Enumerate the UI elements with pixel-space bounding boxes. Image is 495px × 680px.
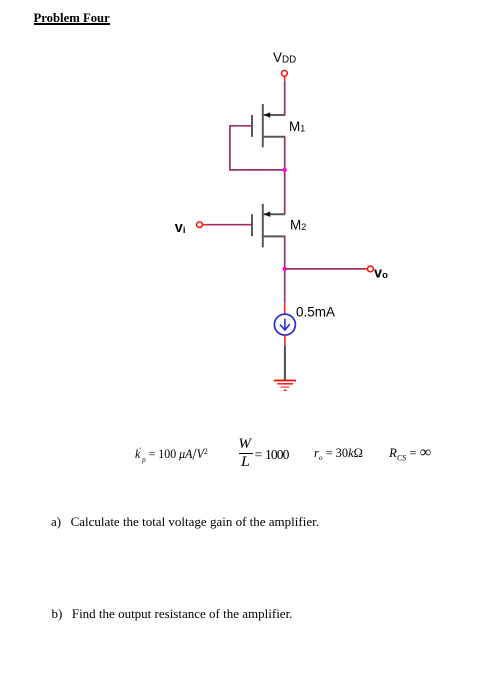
wire VDD to M1 drain bbox=[284, 81, 286, 115]
node VDD label bbox=[273, 50, 296, 66]
parameter W/L equation bbox=[239, 436, 295, 470]
wire M2 source down to output node bbox=[284, 236, 286, 302]
title "Problem Four" bbox=[34, 11, 110, 25]
wire vi stub bbox=[203, 224, 207, 226]
transistor M1 bbox=[252, 104, 285, 147]
svg-text:M1: M1 bbox=[289, 119, 305, 134]
wire vi to M2 gate bbox=[207, 224, 252, 226]
question b bbox=[52, 606, 293, 622]
terminal vo bbox=[368, 266, 374, 272]
wire M1 gate feedback loop bbox=[230, 126, 285, 170]
terminal vi bbox=[197, 222, 203, 228]
svg-text:0.5mA: 0.5mA bbox=[296, 304, 335, 319]
arrow M2 source bbox=[264, 211, 270, 217]
wire node to current source bbox=[284, 303, 286, 315]
parameter ro equation bbox=[314, 446, 363, 462]
wire current source to ground bbox=[284, 335, 286, 346]
label M1 bbox=[289, 119, 305, 134]
wire output node to vo bbox=[285, 268, 365, 270]
wire VDD stub bbox=[284, 77, 286, 81]
arrow M1 source bbox=[264, 112, 270, 118]
value label 0.5mA bbox=[296, 304, 335, 319]
junction output node bbox=[283, 267, 287, 271]
terminal VDD bbox=[282, 70, 288, 76]
label vi bbox=[175, 220, 186, 236]
svg-text:vo: vo bbox=[374, 265, 388, 281]
svg-text:VDD: VDD bbox=[273, 50, 296, 66]
arrow inside current source bbox=[280, 319, 290, 330]
ground bbox=[274, 381, 296, 391]
junction node between M1 and M2 bbox=[283, 168, 287, 172]
question a bbox=[51, 514, 319, 530]
transistor M2 bbox=[252, 204, 285, 248]
svg-text:M2: M2 bbox=[290, 218, 306, 233]
parameter kp equation bbox=[135, 446, 208, 464]
parameter RCS equation bbox=[389, 446, 431, 462]
label M2 bbox=[290, 218, 306, 233]
wire ground lead bbox=[284, 346, 286, 380]
svg-text:vi: vi bbox=[175, 220, 186, 236]
wire vo stub bbox=[365, 268, 368, 270]
label vo bbox=[374, 265, 388, 281]
wire M1 source down bbox=[284, 137, 286, 214]
current source I1 0.5mA bbox=[274, 314, 295, 335]
